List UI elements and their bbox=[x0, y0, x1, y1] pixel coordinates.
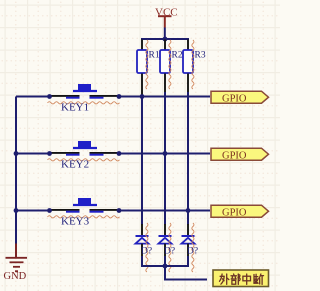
junction bottom bus bbox=[163, 264, 168, 269]
junction at VCC bus bbox=[163, 37, 168, 42]
ground GND bbox=[4, 244, 28, 283]
外 bbox=[220, 274, 229, 284]
diode D2 bbox=[159, 223, 176, 272]
svg-text:KEY2: KEY2 bbox=[61, 159, 89, 171]
中 bbox=[243, 274, 251, 284]
svg-text:R3: R3 bbox=[195, 51, 206, 61]
net label 外部中断 (external interrupt) bbox=[213, 270, 269, 287]
resistor R3 bbox=[183, 40, 206, 98]
wire column 2 (R2 to D2 net) bbox=[164, 92, 166, 225]
svg-text:KEY1: KEY1 bbox=[61, 102, 89, 114]
junction rail row3 bbox=[14, 208, 19, 213]
svg-text:KEY3: KEY3 bbox=[61, 216, 90, 228]
wire column 3 (R3 to D3 net) bbox=[187, 92, 189, 225]
resistor R2 bbox=[160, 40, 183, 98]
port GPIO (row 3) bbox=[211, 205, 269, 218]
switch KEY1 bbox=[16, 84, 210, 114]
wire drop to net label bbox=[165, 266, 207, 280]
wire left rail bbox=[15, 97, 17, 244]
断 bbox=[254, 274, 264, 284]
switch KEY3 bbox=[16, 198, 210, 228]
wire VCC stub bbox=[164, 28, 166, 40]
junction rail row2 bbox=[14, 151, 19, 156]
port GPIO (row 1) bbox=[211, 91, 269, 104]
port GPIO (row 2) bbox=[211, 148, 269, 161]
svg-text:R2: R2 bbox=[172, 51, 183, 61]
wire top bus bbox=[141, 38, 189, 40]
svg-text:GND: GND bbox=[4, 271, 27, 282]
junction row2 col2 bbox=[163, 151, 168, 156]
部 bbox=[231, 274, 240, 284]
wire bottom bus bbox=[142, 265, 188, 267]
wire column 1 (R1 to D1 net) bbox=[141, 97, 143, 225]
junction row3 col3 bbox=[186, 208, 191, 213]
svg-text:R1: R1 bbox=[149, 51, 160, 61]
diode D3 bbox=[182, 223, 199, 272]
resistor R1 bbox=[137, 40, 160, 98]
diode D1 bbox=[136, 223, 153, 272]
switch KEY2 bbox=[16, 141, 210, 171]
junction row1 col1 bbox=[140, 94, 145, 99]
power port VCC bbox=[155, 6, 178, 27]
